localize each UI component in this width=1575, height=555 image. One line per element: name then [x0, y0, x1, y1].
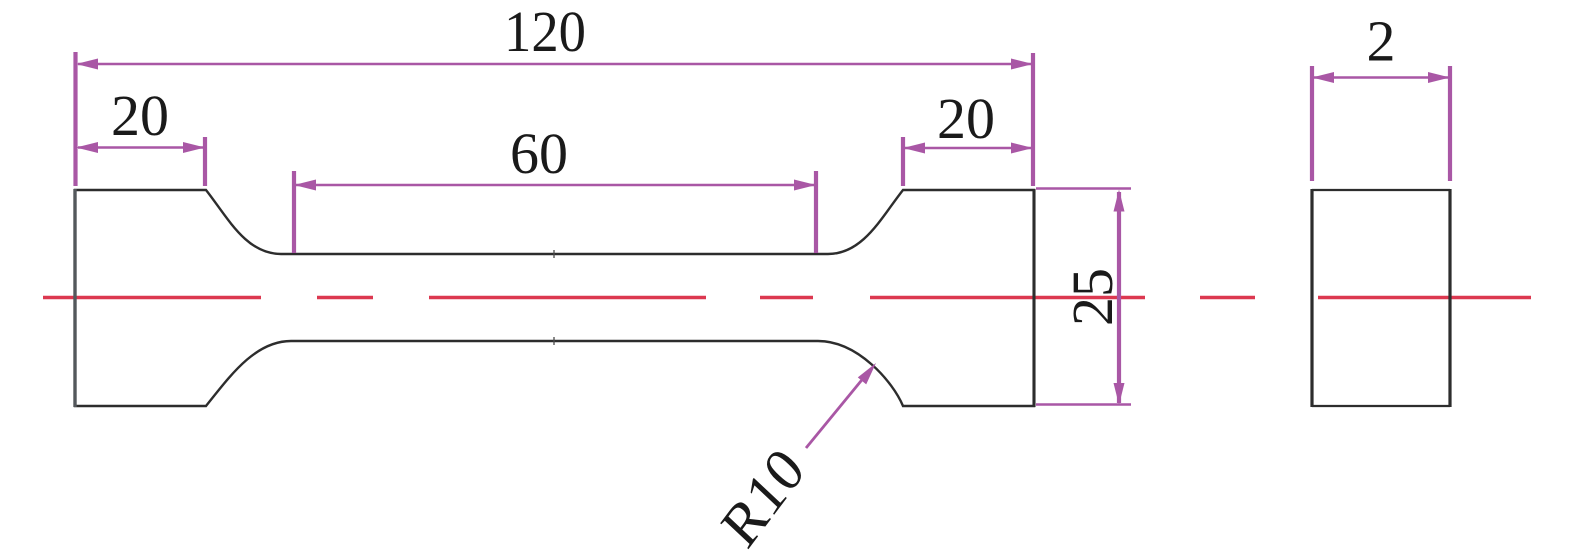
- svg-text:25: 25: [1060, 268, 1125, 326]
- svg-text:2: 2: [1367, 9, 1396, 74]
- svg-text:20: 20: [937, 86, 995, 151]
- svg-text:R10: R10: [709, 435, 816, 555]
- svg-text:20: 20: [111, 83, 169, 148]
- svg-text:120: 120: [504, 0, 586, 64]
- svg-text:60: 60: [510, 121, 568, 186]
